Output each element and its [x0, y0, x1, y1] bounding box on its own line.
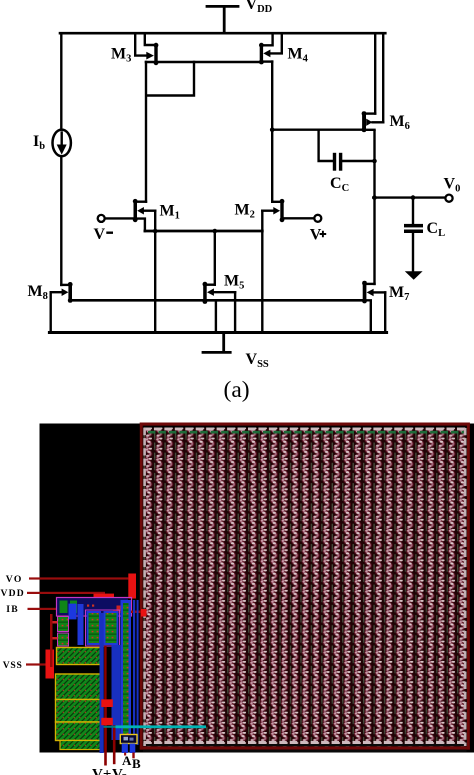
- svg-text:V: V: [310, 226, 322, 243]
- array border bottom: [140, 746, 470, 749]
- transistor cell small lower: [58, 633, 69, 646]
- svg-text:(a): (a): [224, 377, 250, 403]
- svg-text:CL: CL: [427, 220, 446, 239]
- lead line VO: [29, 577, 129, 579]
- svg-text:V-: V-: [112, 767, 127, 775]
- svg-text:M2: M2: [235, 202, 255, 221]
- power symbol VDD: [207, 6, 238, 32]
- array border left: [140, 423, 143, 750]
- transistor M4: [259, 33, 282, 64]
- wire VSS rail: [49, 331, 386, 334]
- pad B: [130, 744, 136, 754]
- trace IB to array: [113, 611, 143, 614]
- trace V- to label: [113, 725, 116, 764]
- trace V+ vertical: [104, 646, 106, 699]
- wire mirror gate line M3-M4: [146, 61, 260, 63]
- pad A: [122, 744, 128, 754]
- svg-text:V: V: [94, 226, 106, 243]
- wire VDD top rail: [60, 32, 385, 35]
- metal link left: [50, 614, 53, 667]
- capacitor array cell matrix: [143, 428, 467, 748]
- svg-text:VSS: VSS: [246, 351, 269, 370]
- capacitor CL: [404, 198, 423, 271]
- capacitor Cc: [333, 153, 375, 171]
- svg-text:VDD: VDD: [246, 0, 273, 15]
- svg-text:Ib: Ib: [33, 133, 45, 152]
- ground symbol below CL: [405, 271, 423, 280]
- blue channel left: [78, 604, 84, 645]
- wire M8 bulk/source to VSS rail: [50, 292, 52, 332]
- guard row block: [57, 648, 101, 665]
- transistor M2: [262, 199, 284, 222]
- wire M6 bulk to rail: [382, 33, 384, 122]
- svg-text:VDD: VDD: [1, 588, 25, 599]
- wire tail to M5 drain: [214, 231, 216, 285]
- array side marker dashes: [143, 428, 146, 746]
- transistor M1: [133, 199, 155, 231]
- svg-text:CC: CC: [330, 175, 349, 194]
- trace V+ to label: [104, 707, 107, 766]
- metal channel center: [100, 613, 104, 753]
- array bottom marker dashes: [144, 741, 467, 744]
- layout labels: [1, 574, 142, 775]
- output device row 2: [56, 700, 102, 723]
- wire V- to M1 gate: [105, 217, 134, 219]
- lead line VDD: [27, 592, 105, 594]
- transistor cell small upper: [58, 617, 69, 632]
- svg-text:M7: M7: [389, 284, 409, 303]
- layout background: [40, 424, 474, 753]
- thin blue rails right: [133, 600, 135, 745]
- svg-text:V0: V0: [444, 176, 461, 195]
- logo box: [120, 735, 137, 744]
- transistor M5: [203, 282, 236, 333]
- wire M1 bulk to VSS rail: [154, 211, 156, 333]
- pad IB: [69, 604, 77, 620]
- output device row 4: [60, 741, 101, 750]
- wire bias line M8-M5-M7 gates: [70, 299, 362, 302]
- wire M4 drain to M2: [271, 62, 273, 202]
- wire M6 drain down to output and M7: [373, 131, 375, 284]
- wire output node line: [373, 196, 445, 198]
- metal bar V+: [101, 699, 113, 707]
- svg-text:M4: M4: [288, 46, 309, 65]
- wire M2 drain to M6 gate: [272, 128, 362, 130]
- wire M7 bulk to VSS rail: [384, 292, 386, 332]
- wire diode connection loop: [146, 62, 194, 202]
- svg-text:IB: IB: [6, 604, 19, 615]
- svg-text:M6: M6: [390, 113, 410, 132]
- svg-text:M8: M8: [28, 283, 48, 302]
- current source Ib: [53, 130, 71, 157]
- array border right: [467, 423, 470, 750]
- power symbol VSS: [203, 334, 230, 352]
- svg-text:M5: M5: [224, 273, 244, 292]
- wire M2 bulk to VSS rail: [261, 211, 263, 333]
- junction dots: [153, 127, 415, 233]
- stub to B label: [132, 753, 134, 759]
- stub to A label: [124, 753, 126, 756]
- node V0 output: [445, 195, 452, 202]
- wire tail node M1-M2 sources: [145, 230, 262, 233]
- transistor M3: [135, 33, 158, 65]
- output device row 1: [56, 674, 102, 700]
- svg-text:M3: M3: [111, 46, 131, 65]
- wire current source to M8 drain: [60, 157, 62, 285]
- pad VSS: [46, 650, 55, 679]
- output device row 3: [56, 722, 102, 741]
- transistor M6: [362, 33, 384, 132]
- transistor M8: [51, 282, 73, 303]
- svg-text:VO: VO: [6, 574, 23, 585]
- svg-text:B: B: [132, 756, 141, 771]
- top cell row strip: [57, 598, 128, 615]
- diff pair column B: [104, 611, 119, 645]
- wire Cc tap: [319, 130, 333, 161]
- wire M5 bulk to VSS rail: [234, 292, 236, 332]
- metal bar V-: [101, 718, 113, 725]
- label V+: [320, 231, 327, 238]
- node V+ input: [314, 215, 321, 222]
- wire left branch from rail to current source: [60, 33, 62, 129]
- svg-text:V+: V+: [92, 767, 111, 775]
- node V- input: [98, 215, 105, 222]
- pad VO: [128, 574, 136, 599]
- bottom plate trace (teal): [116, 725, 207, 728]
- array border top: [140, 423, 470, 426]
- svg-text:M1: M1: [160, 203, 180, 222]
- lead line VSS: [26, 663, 46, 665]
- svg-text:VSS: VSS: [3, 660, 23, 671]
- diff pair column A: [87, 611, 102, 645]
- array top marker dashes: [144, 427, 467, 430]
- transistor M7: [362, 281, 385, 333]
- pad/metal VDD: [94, 594, 115, 602]
- wire M2 gate to V+: [284, 217, 315, 219]
- label V-: [106, 231, 113, 233]
- schematic labels: [28, 0, 461, 370]
- lead line IB: [28, 608, 70, 610]
- right striped column: [121, 600, 132, 741]
